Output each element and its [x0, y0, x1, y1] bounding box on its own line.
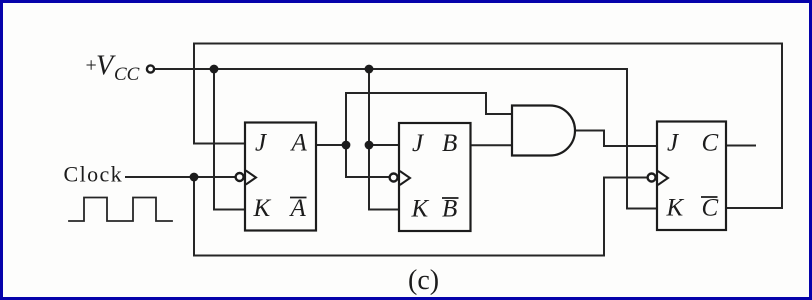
svg-text:CC: CC [114, 64, 140, 85]
svg-text:A: A [290, 130, 308, 157]
svg-text:B: B [442, 130, 457, 157]
svg-text:Clock: Clock [64, 162, 124, 187]
svg-text:B: B [442, 196, 457, 223]
svg-text:C: C [702, 195, 719, 222]
svg-text:(c): (c) [408, 265, 439, 296]
svg-text:J: J [412, 130, 425, 157]
svg-text:J: J [667, 130, 680, 157]
svg-text:V: V [96, 51, 116, 82]
svg-text:K: K [253, 195, 272, 222]
svg-text:A: A [289, 195, 307, 222]
svg-text:C: C [702, 130, 719, 157]
svg-text:K: K [411, 196, 430, 223]
svg-text:J: J [255, 130, 268, 157]
svg-text:K: K [666, 195, 685, 222]
